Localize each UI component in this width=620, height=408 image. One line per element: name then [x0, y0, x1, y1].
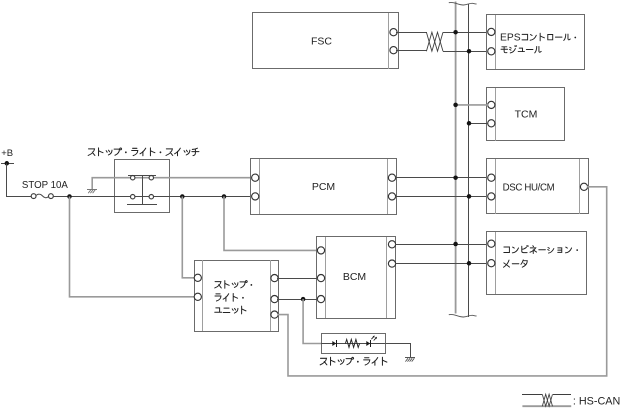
FSC connector strip line	[388, 13, 390, 69]
unit pin C	[271, 275, 278, 282]
junction to BCM feed	[222, 194, 227, 199]
unit pin E	[271, 311, 278, 318]
switch terminal 2	[149, 176, 153, 180]
junction TCM CAN-H	[453, 103, 458, 108]
LED D2	[366, 341, 370, 346]
svg-text:TCM: TCM	[515, 108, 538, 120]
svg-text:PCM: PCM	[312, 181, 335, 193]
DSC connector strip left	[495, 159, 497, 214]
junction PCM CAN-H	[453, 175, 458, 180]
junction CAN-H at FSC/EPS	[453, 30, 458, 35]
module stop light unit box	[195, 261, 279, 332]
unit connector strip left	[202, 260, 204, 331]
+B terminal tick	[1, 163, 14, 165]
fuse STOP 10A	[31, 194, 36, 199]
BCM pin 1	[317, 247, 324, 254]
module BCM box	[317, 237, 396, 319]
wire drop to stop-light-unit pin A	[182, 197, 195, 278]
DSC pin 2	[488, 193, 495, 200]
wire fuse junction to stop-light-unit pin B	[70, 197, 196, 297]
module combination meter box	[487, 232, 587, 295]
DSC connector strip right	[579, 159, 581, 214]
wire drop to BCM pin 1	[224, 197, 319, 251]
meter connector strip line	[495, 232, 497, 294]
stop light box	[322, 334, 386, 354]
FSC pin 1	[390, 29, 397, 36]
FSC pin 2	[390, 47, 397, 54]
stop light label	[320, 358, 327, 365]
BCM pin 2	[317, 275, 324, 282]
TCM pin 2	[488, 120, 495, 127]
wire bus to TCM CAN-H	[456, 104, 489, 106]
wire unit to BCM lower	[277, 299, 318, 301]
wire twist to EPS CAN-H	[443, 32, 488, 34]
svg-text:FSC: FSC	[311, 35, 332, 47]
EPS pin 1	[488, 28, 495, 35]
TCM connector strip line	[495, 88, 497, 141]
junction BCM CAN-H	[453, 242, 458, 247]
svg-text:: HS-CAN: : HS-CAN	[573, 396, 620, 408]
stop light switch label	[88, 149, 95, 156]
junction to stop-light-unit upper	[180, 194, 185, 199]
wire PCM to DSC CAN-L	[395, 196, 488, 198]
unit pin B	[194, 293, 201, 300]
ground (stop light switch)	[87, 189, 97, 191]
DSC pin 3	[580, 183, 587, 190]
wire BCM to meter CAN-H	[395, 244, 488, 246]
bus top twist mark	[449, 2, 477, 5]
diode D1	[332, 341, 336, 346]
switch actuator vertical	[142, 175, 144, 205]
unit connector strip right	[270, 260, 272, 331]
module EPS box	[487, 15, 585, 70]
wire ground to switch upper row	[92, 178, 252, 190]
junction stop light tap	[301, 297, 306, 302]
legend twisted pair	[542, 394, 552, 406]
BCM pin 5	[388, 260, 395, 267]
junction CAN-L at FSC/EPS	[467, 49, 472, 54]
stop light unit label line2	[215, 294, 221, 301]
switch terminal 1	[131, 176, 135, 180]
wire +B down to fuse	[7, 164, 32, 197]
module DSC box	[487, 159, 589, 214]
EPS connector strip line	[495, 15, 497, 69]
ground (stop light)	[405, 357, 415, 359]
legend wire top	[522, 394, 542, 396]
meter pin 1	[488, 240, 495, 247]
bus bottom twist mark	[449, 314, 477, 317]
BCM connector strip left	[325, 237, 327, 318]
switch SW1 box	[115, 160, 170, 213]
DSC pin 1	[488, 174, 495, 181]
PCM connector strip left	[259, 159, 261, 214]
meter pin 2	[488, 260, 495, 267]
twisted pair FSC	[426, 32, 443, 51]
svg-text:DSC HU/CM: DSC HU/CM	[503, 182, 555, 193]
wire FSC CAN-L	[396, 50, 427, 52]
TCM pin 1	[488, 101, 495, 108]
module PCM box	[251, 159, 397, 215]
wire FSC CAN-H	[396, 32, 427, 34]
wire unit to DSC HU/CM loop	[277, 187, 606, 376]
svg-text:EPS: EPS	[500, 33, 521, 44]
switch lower contact bar	[127, 204, 157, 206]
unit pin A	[194, 274, 201, 281]
switch terminal 3	[131, 195, 135, 199]
wire unit to BCM upper	[277, 278, 318, 280]
stop light unit label line3	[215, 308, 222, 312]
resistor R1	[345, 339, 359, 347]
junction TCM CAN-L	[467, 121, 472, 126]
BCM pin 3	[317, 296, 324, 303]
HS-CAN bus line 1 (CAN-H)	[455, 2, 457, 314]
PCM connector strip right	[387, 159, 389, 214]
junction BCM CAN-L	[467, 261, 472, 266]
junction PCM CAN-L	[467, 194, 472, 199]
wire fuse to switch and PCM (lower feed)	[53, 196, 252, 198]
EPS pin 2	[488, 48, 495, 55]
junction fuse output	[67, 194, 72, 199]
wire stop light to ground	[386, 344, 411, 358]
meter label line2	[504, 260, 510, 267]
PCM pin 4	[388, 193, 395, 200]
BCM pin 4	[388, 241, 395, 248]
wire to stop light	[303, 299, 321, 343]
PCM pin 3	[388, 174, 395, 181]
HS-CAN bus line 2 (CAN-L)	[468, 4, 470, 317]
svg-text:+B: +B	[1, 148, 13, 159]
EPS label line2	[501, 47, 508, 53]
stop light internal wire	[321, 343, 385, 345]
module TCM box	[487, 88, 565, 141]
wire BCM to meter CAN-L	[395, 263, 488, 265]
wire PCM to DSC CAN-H	[395, 177, 488, 179]
meter label line1	[504, 247, 510, 252]
unit pin D	[271, 296, 278, 303]
legend wire bottom	[522, 405, 571, 407]
BCM connector strip right	[386, 237, 388, 318]
svg-text:BCM: BCM	[343, 271, 366, 283]
wire bus to TCM CAN-L	[469, 123, 488, 125]
svg-text:STOP 10A: STOP 10A	[22, 180, 68, 191]
switch upper contact bar	[128, 175, 156, 177]
wire twist to EPS CAN-L	[443, 51, 488, 53]
stop light unit label line1	[215, 282, 222, 288]
PCM pin 1	[252, 174, 259, 181]
switch terminal 4	[149, 195, 153, 199]
PCM pin 2	[252, 193, 259, 200]
module FSC box	[253, 13, 399, 69]
node +B dot	[5, 161, 10, 166]
